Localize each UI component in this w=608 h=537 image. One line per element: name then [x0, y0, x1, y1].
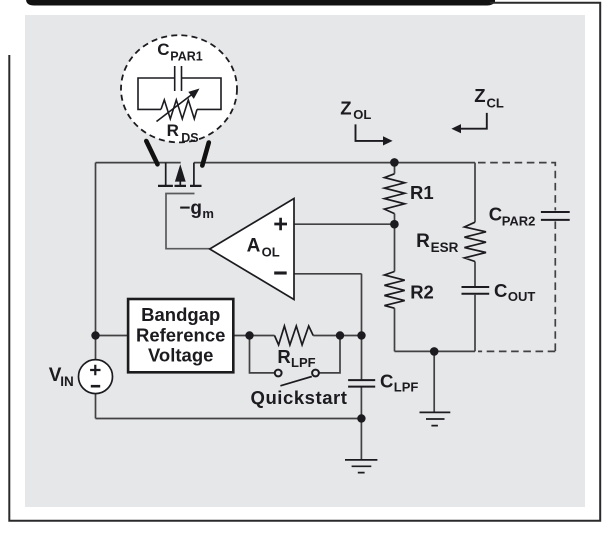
svg-text:R: R: [416, 231, 430, 252]
svg-text:Z: Z: [474, 85, 485, 106]
svg-text:Quickstart: Quickstart: [251, 387, 348, 408]
svg-text:A: A: [247, 236, 261, 257]
svg-text:C: C: [489, 204, 502, 225]
svg-text:LPF: LPF: [394, 380, 419, 395]
svg-text:Z: Z: [340, 97, 351, 118]
svg-text:DS: DS: [181, 131, 198, 145]
svg-text:C: C: [380, 371, 393, 392]
svg-text:R: R: [167, 121, 179, 140]
svg-text:m: m: [202, 206, 214, 221]
svg-text:R: R: [277, 346, 290, 367]
svg-text:OL: OL: [353, 107, 371, 122]
svg-text:PAR2: PAR2: [502, 213, 536, 228]
svg-text:PAR1: PAR1: [170, 50, 202, 64]
svg-text:ESR: ESR: [431, 240, 459, 255]
svg-text:Voltage: Voltage: [148, 345, 213, 366]
svg-text:LPF: LPF: [291, 355, 316, 370]
svg-text:Reference: Reference: [136, 324, 225, 345]
svg-text:R1: R1: [410, 182, 434, 203]
svg-text:CL: CL: [487, 95, 504, 110]
svg-text:OL: OL: [262, 245, 280, 260]
svg-text:R2: R2: [410, 282, 434, 303]
svg-text:Bandgap: Bandgap: [141, 304, 220, 325]
svg-text:C: C: [494, 280, 507, 301]
svg-text:IN: IN: [60, 374, 73, 389]
svg-text:C: C: [157, 40, 169, 59]
svg-text:−g: −g: [179, 198, 202, 219]
svg-text:OUT: OUT: [508, 289, 536, 304]
